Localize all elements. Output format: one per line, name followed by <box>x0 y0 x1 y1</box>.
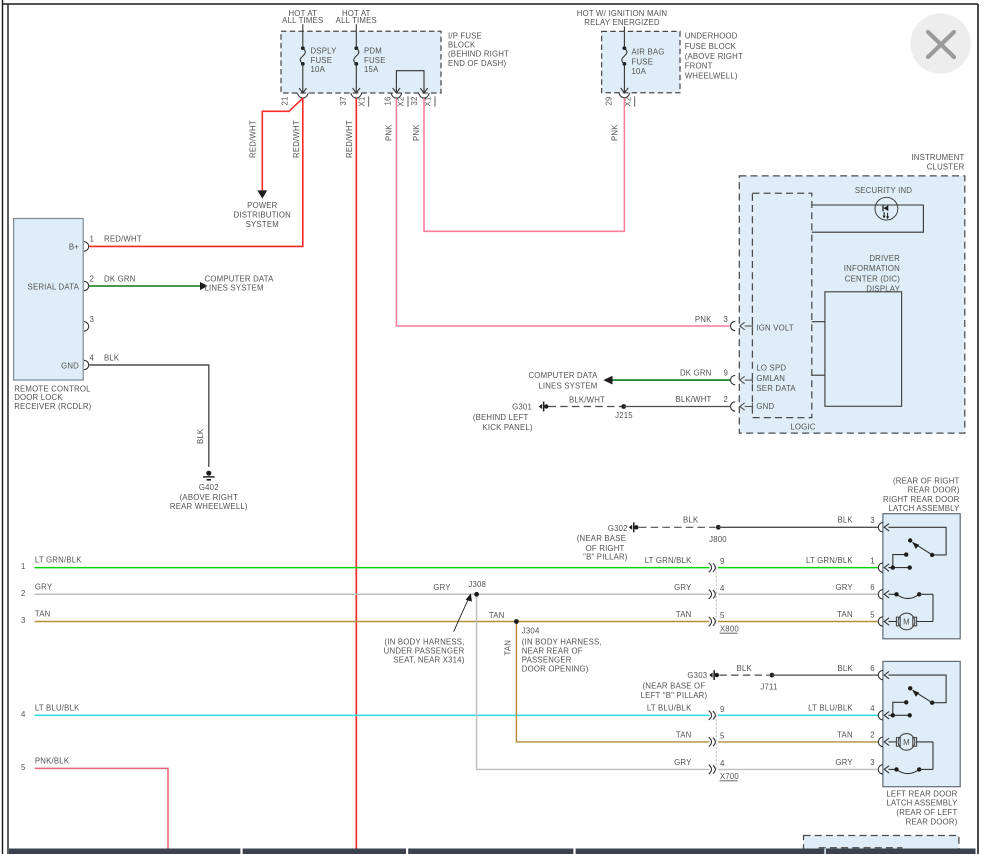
svg-text:(IN BODY HARNESS,: (IN BODY HARNESS, <box>522 637 602 646</box>
svg-text:32: 32 <box>410 96 419 105</box>
svg-text:LT BLU/BLK: LT BLU/BLK <box>647 704 692 713</box>
svg-text:LOGIC: LOGIC <box>790 423 815 432</box>
svg-text:PNK/BLK: PNK/BLK <box>35 756 70 765</box>
svg-text:1: 1 <box>870 556 875 565</box>
svg-text:GND: GND <box>61 361 79 370</box>
svg-text:ALL TIMES: ALL TIMES <box>336 16 377 25</box>
svg-text:POWER: POWER <box>247 201 278 210</box>
svg-text:G302: G302 <box>608 524 628 533</box>
svg-text:DSPLY: DSPLY <box>311 47 338 56</box>
svg-text:REAR DOOR): REAR DOOR) <box>906 817 958 826</box>
svg-text:B+: B+ <box>69 242 79 251</box>
svg-text:IGN VOLT: IGN VOLT <box>756 323 793 332</box>
svg-text:21: 21 <box>281 96 290 105</box>
svg-text:PNK: PNK <box>611 124 620 141</box>
svg-text:SERIAL DATA: SERIAL DATA <box>28 282 80 291</box>
svg-text:4: 4 <box>870 704 875 713</box>
svg-text:UNDERHOOD: UNDERHOOD <box>685 32 738 41</box>
svg-text:9: 9 <box>720 557 725 566</box>
svg-text:BLK: BLK <box>683 516 699 525</box>
svg-text:BLK: BLK <box>104 354 120 363</box>
svg-text:M: M <box>903 738 910 747</box>
svg-text:X2: X2 <box>397 97 406 107</box>
svg-text:BLK: BLK <box>737 664 753 673</box>
svg-text:LINES SYSTEM: LINES SYSTEM <box>538 382 597 391</box>
svg-text:37: 37 <box>339 96 348 105</box>
svg-text:FUSE: FUSE <box>364 56 386 65</box>
svg-text:BLK: BLK <box>196 428 205 444</box>
svg-text:29: 29 <box>605 96 614 105</box>
svg-text:J711: J711 <box>760 683 777 692</box>
svg-text:J215: J215 <box>615 411 633 420</box>
svg-text:4: 4 <box>720 584 725 593</box>
svg-text:RELAY ENERGIZED: RELAY ENERGIZED <box>584 18 660 27</box>
svg-text:LATCH ASSEMBLY: LATCH ASSEMBLY <box>889 504 961 513</box>
svg-text:(NEAR BASE: (NEAR BASE <box>577 534 626 543</box>
svg-text:DISTRIBUTION: DISTRIBUTION <box>234 211 291 220</box>
svg-text:PNK: PNK <box>412 124 421 141</box>
svg-text:BLK/WHT: BLK/WHT <box>675 395 711 404</box>
svg-text:J308: J308 <box>468 580 486 589</box>
svg-text:M: M <box>903 618 910 627</box>
svg-text:NEAR REAR OF: NEAR REAR OF <box>522 647 583 656</box>
svg-text:9: 9 <box>720 705 725 714</box>
svg-text:ALL TIMES: ALL TIMES <box>282 16 323 25</box>
svg-text:G303: G303 <box>687 671 707 680</box>
svg-text:PASSENGER: PASSENGER <box>522 656 572 665</box>
svg-text:GRY: GRY <box>835 758 853 767</box>
svg-text:2: 2 <box>21 589 26 598</box>
svg-text:X700: X700 <box>720 772 739 781</box>
svg-text:X800: X800 <box>720 625 739 634</box>
svg-text:FUSE BLOCK: FUSE BLOCK <box>685 42 737 51</box>
svg-text:15A: 15A <box>364 65 379 74</box>
svg-text:G301: G301 <box>512 403 532 412</box>
svg-text:3: 3 <box>21 616 26 625</box>
svg-text:1: 1 <box>90 234 95 243</box>
svg-text:5: 5 <box>720 611 725 620</box>
svg-text:REMOTE CONTROL: REMOTE CONTROL <box>14 384 91 393</box>
svg-text:LO SPD: LO SPD <box>756 364 786 373</box>
svg-text:FUSE: FUSE <box>311 56 333 65</box>
svg-text:DK GRN: DK GRN <box>104 275 136 284</box>
svg-text:COMPUTER DATA: COMPUTER DATA <box>528 371 598 380</box>
svg-text:REAR WHEELWELL): REAR WHEELWELL) <box>170 502 248 511</box>
svg-text:PNK: PNK <box>695 315 712 324</box>
svg-text:SEAT, NEAR X314): SEAT, NEAR X314) <box>393 656 464 665</box>
svg-text:"B" PILLAR): "B" PILLAR) <box>583 552 628 561</box>
svg-text:PDM: PDM <box>364 47 382 56</box>
svg-text:TAN: TAN <box>504 640 513 656</box>
svg-text:BLK: BLK <box>837 516 853 525</box>
svg-text:TAN: TAN <box>35 610 51 619</box>
svg-text:2: 2 <box>90 275 95 284</box>
svg-text:KICK PANEL): KICK PANEL) <box>483 423 533 432</box>
svg-text:UNDER PASSENGER: UNDER PASSENGER <box>384 647 465 656</box>
svg-text:DOOR LOCK: DOOR LOCK <box>14 393 63 402</box>
svg-text:TAN: TAN <box>489 611 505 620</box>
svg-text:(NEAR BASE OF: (NEAR BASE OF <box>642 682 705 691</box>
svg-text:X1: X1 <box>424 97 433 107</box>
svg-text:2: 2 <box>870 731 875 740</box>
svg-text:1: 1 <box>21 562 26 571</box>
svg-text:10A: 10A <box>311 65 326 74</box>
svg-text:DOOR OPENING): DOOR OPENING) <box>522 665 589 674</box>
svg-text:LT GRN/BLK: LT GRN/BLK <box>645 556 692 565</box>
svg-text:BLK/WHT: BLK/WHT <box>569 395 605 404</box>
svg-text:4: 4 <box>720 759 725 768</box>
svg-text:TAN: TAN <box>837 731 853 740</box>
svg-text:J800: J800 <box>709 535 727 544</box>
svg-text:3: 3 <box>90 315 95 324</box>
svg-text:PNK: PNK <box>385 124 394 141</box>
svg-text:GRY: GRY <box>835 583 853 592</box>
svg-text:X1: X1 <box>357 97 366 107</box>
svg-text:J304: J304 <box>522 627 540 636</box>
svg-text:RECEIVER (RCDLR): RECEIVER (RCDLR) <box>14 402 91 411</box>
svg-text:LATCH ASSEMBLY: LATCH ASSEMBLY <box>887 799 959 808</box>
svg-text:LEFT REAR DOOR: LEFT REAR DOOR <box>886 789 957 798</box>
svg-text:INSTRUMENT: INSTRUMENT <box>911 153 964 162</box>
svg-text:4: 4 <box>90 354 95 363</box>
svg-text:RED/WHT: RED/WHT <box>104 234 142 243</box>
svg-text:RED/WHT: RED/WHT <box>292 120 301 158</box>
svg-text:DRIVER: DRIVER <box>869 254 900 263</box>
svg-text:DK GRN: DK GRN <box>680 369 712 378</box>
svg-text:6: 6 <box>870 583 875 592</box>
svg-text:(ABOVE RIGHT: (ABOVE RIGHT <box>685 52 743 61</box>
svg-text:GND: GND <box>756 402 774 411</box>
svg-text:LT GRN/BLK: LT GRN/BLK <box>35 556 82 565</box>
svg-text:6: 6 <box>870 664 875 673</box>
svg-text:LEFT "B" PILLAR): LEFT "B" PILLAR) <box>641 691 708 700</box>
svg-text:TAN: TAN <box>676 731 692 740</box>
svg-text:TAN: TAN <box>676 610 692 619</box>
svg-text:GRY: GRY <box>674 758 692 767</box>
svg-text:LT GRN/BLK: LT GRN/BLK <box>806 556 853 565</box>
svg-text:FRONT: FRONT <box>685 61 713 70</box>
svg-text:5: 5 <box>21 763 26 772</box>
svg-text:(BEHIND RIGHT: (BEHIND RIGHT <box>448 50 509 59</box>
svg-text:GMLAN: GMLAN <box>756 374 785 383</box>
svg-text:9: 9 <box>723 369 728 378</box>
svg-text:SYSTEM: SYSTEM <box>246 220 279 229</box>
svg-text:G402: G402 <box>199 483 219 492</box>
svg-text:3: 3 <box>870 758 875 767</box>
svg-text:RED/WHT: RED/WHT <box>249 120 258 158</box>
svg-text:SER DATA: SER DATA <box>756 384 796 393</box>
svg-text:SECURITY IND: SECURITY IND <box>855 186 912 195</box>
svg-text:COMPUTER DATA: COMPUTER DATA <box>205 275 275 284</box>
svg-text:WHEELWELL): WHEELWELL) <box>685 72 738 81</box>
svg-text:AIR BAG: AIR BAG <box>632 47 665 56</box>
svg-text:REAR DOOR): REAR DOOR) <box>908 486 960 495</box>
svg-text:(IN BODY HARNESS,: (IN BODY HARNESS, <box>385 637 465 646</box>
svg-text:3: 3 <box>723 315 728 324</box>
svg-text:LT BLU/BLK: LT BLU/BLK <box>808 704 853 713</box>
svg-text:(REAR OF LEFT: (REAR OF LEFT <box>896 808 957 817</box>
svg-text:(BEHIND LEFT: (BEHIND LEFT <box>473 413 529 422</box>
svg-text:4: 4 <box>21 710 26 719</box>
svg-text:LINES SYSTEM: LINES SYSTEM <box>205 284 264 293</box>
svg-text:3: 3 <box>870 516 875 525</box>
svg-text:BLK: BLK <box>837 664 853 673</box>
svg-text:INFORMATION: INFORMATION <box>844 264 900 273</box>
svg-text:RED/WHT: RED/WHT <box>345 120 354 158</box>
svg-text:BLOCK: BLOCK <box>448 41 476 50</box>
svg-text:FUSE: FUSE <box>632 57 654 66</box>
svg-text:5: 5 <box>720 731 725 740</box>
svg-text:GRY: GRY <box>674 583 692 592</box>
svg-text:CENTER (DIC): CENTER (DIC) <box>845 274 900 283</box>
svg-text:2: 2 <box>723 395 728 404</box>
svg-text:(REAR OF RIGHT: (REAR OF RIGHT <box>893 476 960 485</box>
svg-text:16: 16 <box>384 96 393 105</box>
svg-text:10A: 10A <box>632 67 647 76</box>
svg-text:END OF DASH): END OF DASH) <box>448 59 506 68</box>
svg-text:RIGHT REAR DOOR: RIGHT REAR DOOR <box>883 495 960 504</box>
svg-text:GRY: GRY <box>35 582 53 591</box>
svg-text:CLUSTER: CLUSTER <box>927 162 965 171</box>
svg-text:LT BLU/BLK: LT BLU/BLK <box>35 703 80 712</box>
svg-text:TAN: TAN <box>837 610 853 619</box>
svg-text:GRY: GRY <box>433 583 451 592</box>
svg-text:5: 5 <box>870 610 875 619</box>
svg-text:I/P FUSE: I/P FUSE <box>448 32 482 41</box>
svg-text:(ABOVE RIGHT: (ABOVE RIGHT <box>180 493 238 502</box>
